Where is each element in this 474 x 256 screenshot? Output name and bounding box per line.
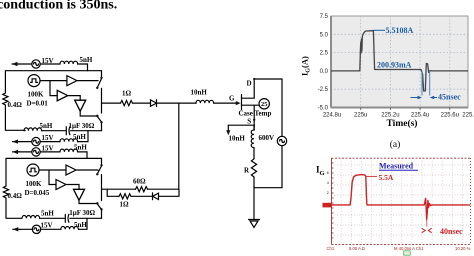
svg-text:1μF 30Ω: 1μF 30Ω <box>69 209 95 217</box>
svg-text:5nH: 5nH <box>80 56 93 64</box>
svg-text:S: S <box>247 118 251 126</box>
svg-text:conduction is 350ns.: conduction is 350ns. <box>0 0 117 13</box>
svg-text:225.2u: 225.2u <box>381 113 399 119</box>
svg-text:5nH: 5nH <box>41 209 54 217</box>
svg-text:0.4Ω: 0.4Ω <box>8 192 23 200</box>
svg-text:0.0: 0.0 <box>320 69 329 75</box>
svg-text:6: 6 <box>327 171 329 175</box>
svg-text:40nsec: 40nsec <box>440 227 463 236</box>
svg-text:15V: 15V <box>41 222 53 230</box>
svg-text:224.8u: 224.8u <box>323 113 341 119</box>
svg-text:Time(s): Time(s) <box>387 118 418 129</box>
svg-text:IG(A): IG(A) <box>300 56 312 76</box>
svg-text:5nH: 5nH <box>40 122 53 130</box>
svg-text:15V: 15V <box>42 144 54 152</box>
svg-text:Ch1: Ch1 <box>327 246 335 251</box>
svg-text:IG: IG <box>316 165 325 178</box>
svg-text:225.4u: 225.4u <box>411 113 429 119</box>
svg-text:1Ω: 1Ω <box>122 90 132 98</box>
svg-text:G: G <box>229 95 235 103</box>
svg-text:D: D <box>247 80 252 88</box>
svg-text:2.5: 2.5 <box>320 51 329 57</box>
svg-text:100K: 100K <box>28 91 45 99</box>
svg-text:Case Temp: Case Temp <box>239 110 272 118</box>
svg-text:5.5108A: 5.5108A <box>386 26 414 35</box>
svg-text:2: 2 <box>327 191 329 195</box>
svg-text:5nH: 5nH <box>74 221 87 229</box>
svg-text:5.0: 5.0 <box>320 32 329 38</box>
svg-text:10nH: 10nH <box>229 135 246 143</box>
svg-text:4: 4 <box>327 181 329 185</box>
svg-text:225.8u: 225.8u <box>462 113 474 119</box>
svg-text:225u: 225u <box>354 113 367 119</box>
svg-text:5.5A: 5.5A <box>379 173 394 182</box>
svg-text:25: 25 <box>261 101 267 108</box>
svg-text:60Ω: 60Ω <box>133 178 146 186</box>
svg-text:600V: 600V <box>259 134 275 142</box>
svg-text:5nH: 5nH <box>74 143 87 151</box>
svg-text:0.4Ω: 0.4Ω <box>8 101 23 109</box>
svg-text:D=0.01: D=0.01 <box>27 100 49 108</box>
svg-text:Measured: Measured <box>379 162 414 171</box>
svg-text:5.00 A Ω: 5.00 A Ω <box>349 246 365 251</box>
svg-text:1Ω: 1Ω <box>120 201 130 209</box>
svg-text:(a): (a) <box>390 139 401 150</box>
svg-text:100K: 100K <box>26 180 43 188</box>
svg-text:R: R <box>244 167 250 175</box>
svg-text:10nH: 10nH <box>191 89 208 97</box>
svg-text:225.6u: 225.6u <box>441 113 459 119</box>
svg-text:7.5: 7.5 <box>320 14 329 20</box>
svg-text:1μF 30Ω: 1μF 30Ω <box>69 122 95 130</box>
svg-text:45nsec: 45nsec <box>438 92 461 101</box>
svg-text:-2.5: -2.5 <box>318 87 329 93</box>
svg-text:M 40.0ns A Ch1: M 40.0ns A Ch1 <box>394 246 424 251</box>
svg-text:15V: 15V <box>42 134 54 142</box>
svg-text:D=0.045: D=0.045 <box>25 189 50 197</box>
svg-text:200.93mA: 200.93mA <box>377 61 412 70</box>
svg-text:5nH: 5nH <box>73 133 86 141</box>
svg-text:10.20 %: 10.20 % <box>455 246 471 251</box>
svg-text:-5.0: -5.0 <box>318 106 329 112</box>
